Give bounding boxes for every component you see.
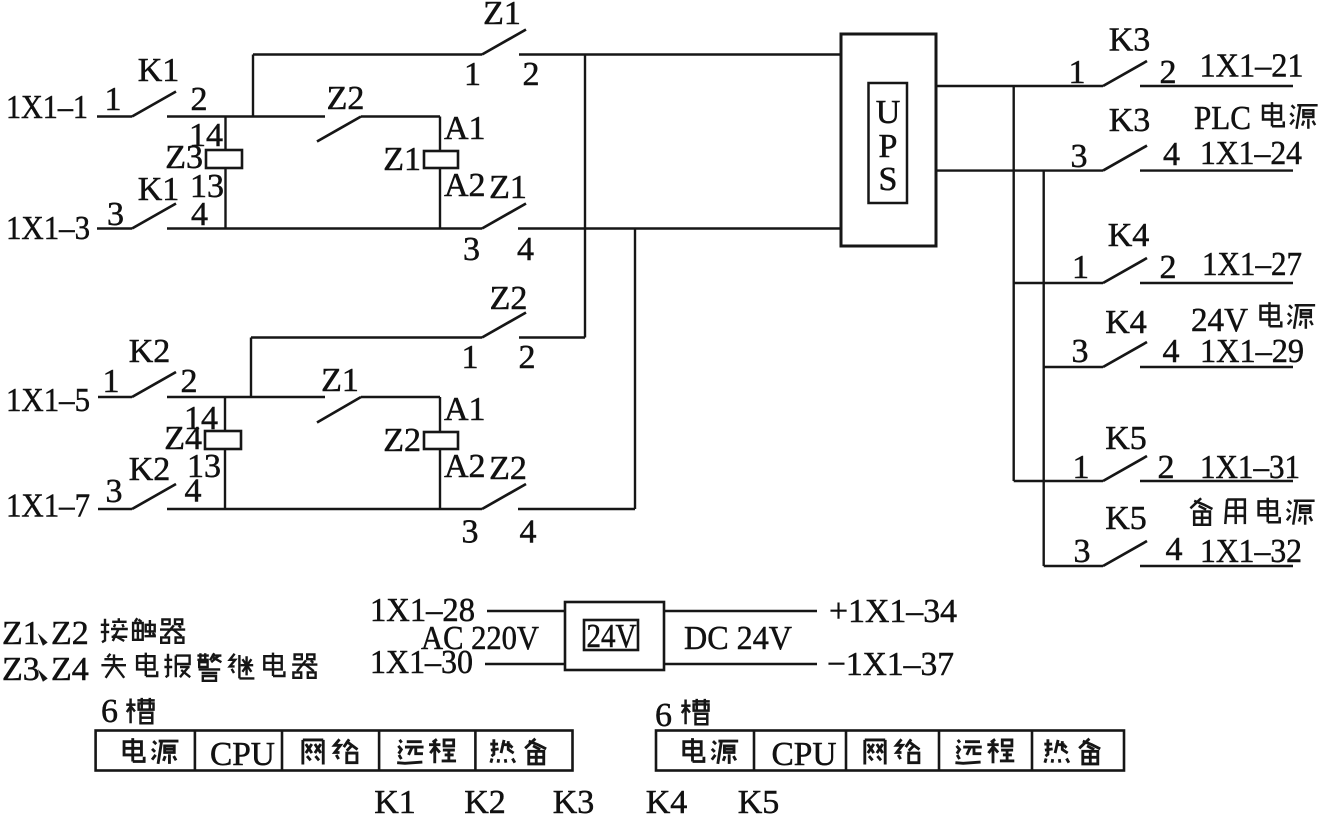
svg-text:4: 4 [520,514,537,551]
wire [1140,480,1293,482]
svg-text:CPU: CPU [772,736,837,773]
wire [487,610,565,612]
cell hot-standby [490,739,546,764]
svg-text:PLC: PLC [1194,100,1251,137]
cell remote [397,739,456,763]
svg-text:K3: K3 [1109,102,1151,139]
svg-text:DC 24V: DC 24V [684,620,792,657]
rack table 2 [656,731,1124,771]
svg-text:1X1–5: 1X1–5 [6,382,90,419]
svg-text:Z2: Z2 [383,422,421,459]
cell hot-standby [1044,739,1100,764]
switch K5 contact pins 3-4 [1103,541,1147,566]
wire [1044,366,1103,368]
svg-text:K3: K3 [553,784,595,816]
svg-text:K1: K1 [138,171,180,208]
cell network [865,739,920,764]
svg-text:3: 3 [1072,333,1089,370]
svg-text:6: 6 [101,693,118,730]
svg-text:Z3: Z3 [2,651,40,688]
svg-text:3: 3 [1074,533,1091,570]
svg-text:Z1: Z1 [483,0,521,32]
wire [439,168,441,229]
label backup power [1190,498,1212,524]
wire [224,449,226,509]
svg-text:4: 4 [185,473,202,510]
switch K2 contact pins 1-2 [132,372,176,397]
contactor Z1 contact pins 1-2 [482,30,526,55]
wire [1140,565,1293,567]
svg-text:K2: K2 [129,451,171,488]
svg-text:Z2: Z2 [490,280,528,317]
svg-text:1X1–27: 1X1–27 [1202,246,1302,283]
svg-text:U: U [876,94,901,131]
wire [224,397,226,431]
cell power [684,738,738,764]
power supply box [565,602,664,670]
svg-text:1X1–21: 1X1–21 [1200,48,1304,85]
svg-text:1: 1 [464,56,481,93]
wire riser [634,229,636,510]
cell network [303,739,358,764]
svg-text:K5: K5 [1105,500,1147,537]
svg-text:−1X1–37: −1X1–37 [827,646,954,683]
svg-text:+1X1–34: +1X1–34 [829,593,957,630]
relay coil Z1 [424,151,458,168]
contactor Z1 interlock contact [317,397,361,423]
svg-text:2: 2 [191,81,208,118]
wire [251,336,482,338]
wire [1140,366,1293,368]
switch K4 contact pins 1-2 [1103,258,1147,283]
svg-text:1X1–29: 1X1–29 [1200,333,1304,370]
svg-text:2: 2 [1160,249,1177,286]
wire [97,227,132,229]
svg-text:K5: K5 [738,784,780,816]
svg-text:Z2: Z2 [489,450,527,487]
relay coil Z4 [205,431,241,449]
svg-text:Z4: Z4 [51,651,89,688]
wire to UPS [518,227,841,229]
contactor Z2 contact pins 3-4 [482,484,526,509]
relay coil Z2 [424,432,458,449]
wire [224,168,226,229]
svg-text:K1: K1 [138,52,180,89]
wire [167,115,325,117]
svg-text:3: 3 [1071,138,1088,175]
wire [1140,85,1293,87]
wire [485,663,565,665]
wire [439,397,441,432]
svg-text:Z1: Z1 [383,141,421,178]
svg-text:24V: 24V [587,618,637,655]
wire [439,117,441,152]
svg-text:1X1–32: 1X1–32 [1200,533,1302,570]
wire from UPS [936,85,1103,87]
svg-text:A2: A2 [444,167,486,204]
svg-text:3: 3 [462,514,479,551]
svg-text:1X1–31: 1X1–31 [1200,449,1300,486]
contactor Z2 interlock contact [317,117,361,142]
UPS box [841,34,936,246]
svg-text:P: P [879,128,898,165]
svg-text:CPU: CPU [210,736,275,773]
rack table 1 [96,731,573,771]
svg-text:K4: K4 [1105,304,1147,341]
switch K5 contact pins 1-2 [1103,456,1147,481]
cell power [124,738,178,764]
svg-text:1: 1 [1073,449,1090,486]
wire [253,53,482,55]
switch K3 contact pins 1-2 [1103,61,1147,86]
svg-text:4: 4 [1163,136,1180,173]
svg-text:1: 1 [1072,249,1089,286]
svg-text:1: 1 [462,339,479,376]
svg-text:S: S [879,161,898,198]
relay coil Z3 [206,150,242,168]
svg-text:Z1: Z1 [489,169,527,206]
wire [98,396,132,398]
svg-text:Z1: Z1 [2,615,40,652]
wire [167,396,325,398]
svg-text:A1: A1 [444,110,486,147]
wire [97,115,132,117]
wire bus riser [1042,171,1044,566]
wire [1014,480,1103,482]
wire bus riser [1013,86,1015,481]
svg-text:K2: K2 [464,784,506,816]
wire [1044,565,1103,567]
wire [98,508,132,510]
svg-text:3: 3 [463,231,480,268]
24V module box [584,620,638,650]
svg-text:2: 2 [181,363,198,400]
svg-text:K4: K4 [1108,217,1150,254]
wire [167,508,482,510]
wire [518,508,635,510]
svg-text:1X1–30: 1X1–30 [370,644,473,681]
svg-text:1: 1 [1069,54,1086,91]
svg-text:4: 4 [517,231,534,268]
svg-text:K3: K3 [1109,22,1151,59]
svg-text:Z2: Z2 [51,615,89,652]
svg-text:A1: A1 [444,391,486,428]
contactor Z2 contact pins 1-2 [482,313,526,338]
svg-text:6: 6 [655,697,672,734]
svg-text:4: 4 [1166,531,1183,568]
switch K2 contact pins 3-4 [132,484,176,509]
svg-text:Z2: Z2 [327,80,365,117]
svg-text:2: 2 [519,339,536,376]
svg-text:1X1–1: 1X1–1 [6,89,88,126]
wire riser [252,55,254,117]
cell remote [955,739,1014,763]
wire [664,663,817,665]
wire [1140,169,1293,171]
switch K1 contact pins 3-4 [132,204,176,229]
wire [439,449,441,509]
wire to UPS [519,53,841,55]
wire [519,336,585,338]
wire [361,396,440,398]
svg-text:3: 3 [106,473,123,510]
wire [167,227,482,229]
wire from UPS [936,169,1103,171]
svg-text:1X1–24: 1X1–24 [1200,135,1302,172]
svg-text:K1: K1 [374,784,416,816]
wire riser [250,338,252,398]
wire riser [584,55,586,338]
wire [1014,282,1103,284]
svg-text:K4: K4 [646,784,688,816]
wire [1140,282,1293,284]
svg-text:1X1–3: 1X1–3 [6,210,90,247]
svg-text:1: 1 [105,81,122,118]
svg-text:1: 1 [103,363,120,400]
svg-text:1X1–7: 1X1–7 [6,488,90,525]
svg-text:K5: K5 [1105,420,1147,457]
wire [664,610,817,612]
svg-text:A2: A2 [444,448,486,485]
svg-text:2: 2 [523,56,540,93]
switch K3 contact pins 3-4 [1103,146,1147,171]
contactor Z1 contact pins 3-4 [482,204,526,229]
svg-text:K2: K2 [129,333,171,370]
wire [224,117,226,151]
svg-text:4: 4 [1163,333,1180,370]
UPS inner box [869,83,908,203]
switch K4 contact pins 3-4 [1103,342,1147,367]
svg-text:Z1: Z1 [321,362,359,399]
wire [361,115,440,117]
switch K1 contact pins 1-2 [132,92,176,117]
